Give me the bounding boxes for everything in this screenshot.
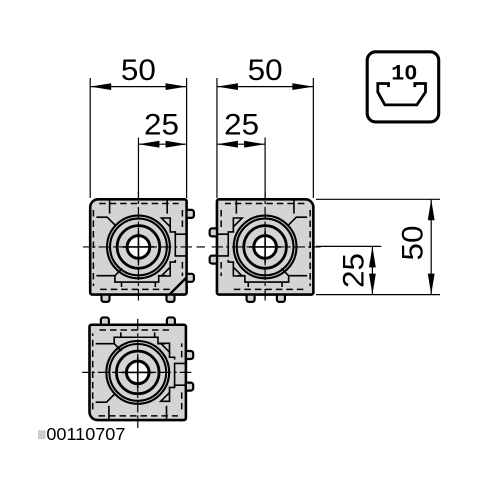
dimension 50 (cube B height) xyxy=(430,199,432,294)
svg-text:10: 10 xyxy=(391,62,417,87)
cube B left tabs xyxy=(210,228,217,236)
hidden dashed inset lines xyxy=(93,204,182,290)
cube A chamfer line xyxy=(169,277,186,294)
centerline bridge dash xyxy=(197,246,206,248)
centerlines xyxy=(82,317,193,428)
dimension 25 (cube B half height) xyxy=(371,246,373,294)
cube B bottom feet xyxy=(247,295,255,302)
cover dotted-zero dot xyxy=(409,70,413,75)
svg-text:00110707: 00110707 xyxy=(46,424,125,444)
counterbore circles xyxy=(107,216,170,279)
groove size icon box xyxy=(367,52,439,122)
cube A right tabs xyxy=(187,210,194,218)
bore xyxy=(126,361,149,384)
svg-text:50: 50 xyxy=(396,226,429,261)
slot detail lines xyxy=(96,332,186,420)
svg-text:25: 25 xyxy=(337,253,370,288)
counterbore circles xyxy=(106,341,169,404)
cube body xyxy=(217,199,313,294)
slot detail lines xyxy=(96,199,186,287)
svg-text:25: 25 xyxy=(144,108,179,141)
cube C top tabs xyxy=(101,317,109,324)
slot detail lines xyxy=(217,199,307,287)
groove profile glyph xyxy=(378,84,426,105)
svg-text:50: 50 xyxy=(121,54,156,87)
dimension 25 (cube B half width) xyxy=(217,143,265,145)
bore xyxy=(127,236,150,259)
cube A bottom feet xyxy=(101,295,109,302)
extension lines for height dims (right side) xyxy=(316,198,440,200)
extension lines for width dims cube A xyxy=(89,78,91,198)
svg-text:25: 25 xyxy=(224,108,259,141)
counterbore circles xyxy=(234,216,297,279)
hidden dashed inset lines xyxy=(93,330,182,416)
cube body xyxy=(90,325,186,420)
hidden dashed inset lines xyxy=(221,204,310,290)
dimension 25 (cube A half width) xyxy=(138,143,186,145)
centerlines xyxy=(210,191,321,302)
cube connector A (front view, top-left) xyxy=(83,191,194,302)
extension lines for width dims cube B xyxy=(216,78,218,198)
dimension 50 (cube B width) xyxy=(217,86,313,88)
cube body xyxy=(90,199,186,294)
list bullet square xyxy=(38,430,46,439)
bore xyxy=(254,236,277,259)
cube connector C (top view, bottom-left), vertical mirror of A xyxy=(82,317,193,428)
cube C right tabs xyxy=(186,351,193,359)
dimension 50 (cube A width) xyxy=(90,86,186,88)
centerlines xyxy=(83,191,194,302)
cube connector B (side view, top-right), mirror of A xyxy=(210,191,321,302)
svg-text:50: 50 xyxy=(248,54,283,87)
